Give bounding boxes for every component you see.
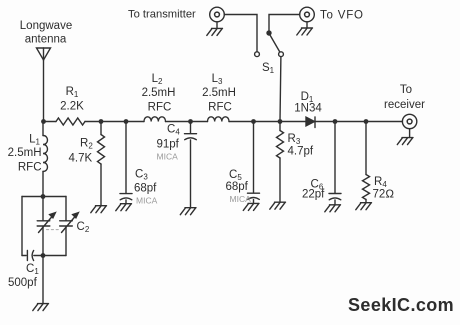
- wire bus segment R1 to L2: [85, 121, 144, 123]
- svg-text:2.2K: 2.2K: [60, 101, 84, 113]
- wire box left edge: [21, 197, 23, 256]
- diode D1: [306, 117, 315, 128]
- inductor L3: [208, 117, 230, 122]
- capacitor C5: [248, 122, 260, 204]
- connector J1 To transmitter label: [128, 9, 196, 21]
- wire bus segment L3 to D1: [229, 121, 306, 123]
- svg-text:68pf: 68pf: [226, 181, 249, 193]
- svg-text:To VFO: To VFO: [320, 10, 364, 22]
- wire box bottom edge left: [22, 255, 26, 257]
- connector J3 To receiver label: [384, 84, 425, 111]
- svg-text:22pf: 22pf: [302, 189, 325, 201]
- switch S1 arm: [270, 35, 279, 51]
- svg-text:MICA: MICA: [136, 196, 158, 206]
- svg-text:Longwave: Longwave: [20, 20, 72, 32]
- resistor R4: [363, 122, 370, 203]
- svg-text:RFC: RFC: [18, 162, 42, 174]
- capacitor C6 labels: [302, 179, 325, 201]
- wire box to ground: [42, 256, 44, 304]
- gang link C2: [47, 229, 61, 231]
- switch S1 label: [262, 62, 275, 75]
- capacitor C4: [185, 122, 197, 208]
- wire antenna to bus: [43, 60, 45, 122]
- svg-text:72Ω: 72Ω: [373, 189, 395, 201]
- svg-text:To: To: [400, 84, 412, 96]
- connector J3: [402, 114, 416, 128]
- junction bus-R4: [364, 119, 369, 124]
- capacitor C6: [329, 122, 341, 205]
- capacitor C3 labels: [134, 169, 158, 206]
- connector J2: [300, 7, 315, 22]
- capacitor C5 labels: [226, 169, 252, 204]
- ground under R3: [270, 202, 286, 209]
- svg-text:4.7K: 4.7K: [69, 153, 93, 165]
- ground under J3: [397, 129, 413, 145]
- junction bus-C6: [333, 119, 338, 124]
- ground under J1: [207, 22, 223, 36]
- junction bus-S1/R3: [278, 119, 283, 124]
- wire switch to bus: [279, 57, 282, 122]
- svg-text:RFC: RFC: [208, 102, 232, 114]
- junction bus-antenna: [41, 119, 46, 124]
- svg-text:4.7pf: 4.7pf: [288, 146, 314, 158]
- resistor R4 labels: [373, 176, 395, 201]
- switch S1 contact b (receiver): [279, 52, 284, 57]
- ground under C3: [116, 204, 132, 211]
- svg-text:MICA: MICA: [230, 194, 252, 204]
- variable capacitor C2 section a: [37, 197, 55, 256]
- svg-text:2.5mH: 2.5mH: [8, 147, 42, 159]
- svg-text:RFC: RFC: [148, 102, 172, 114]
- resistor R1: [56, 118, 85, 125]
- capacitor C3: [120, 122, 132, 204]
- resistor R2 labels: [69, 138, 94, 165]
- ground under R2: [91, 206, 107, 213]
- svg-text:receiver: receiver: [384, 99, 425, 111]
- ground under C1 tank: [33, 304, 49, 311]
- wire box top edge: [22, 196, 66, 198]
- svg-text:91pf: 91pf: [157, 139, 180, 151]
- switch S1 contact a (transmitter): [255, 52, 260, 57]
- junction bus-C5: [251, 119, 256, 124]
- svg-text:MICA: MICA: [157, 152, 179, 162]
- junction bus-C4: [188, 119, 193, 124]
- junction bus-C3: [124, 119, 129, 124]
- junction bus-R2: [99, 119, 104, 124]
- svg-text:antenna: antenna: [25, 34, 67, 46]
- capacitor C1 labels: [8, 263, 39, 289]
- ground under C4: [180, 208, 196, 215]
- switch S1 pivot dot: [266, 30, 271, 35]
- wire bus segment D1 to receiver: [315, 121, 402, 123]
- wire bus segment antenna to R1: [44, 121, 57, 123]
- inductor L2: [144, 117, 166, 122]
- resistor R1 labels: [60, 86, 84, 113]
- svg-text:2.5mH: 2.5mH: [142, 87, 176, 99]
- junction box top: [41, 194, 46, 199]
- inductor L3 labels: [202, 73, 236, 114]
- svg-text:500pf: 500pf: [8, 277, 38, 289]
- inductor L1: [43, 122, 48, 197]
- svg-text:SeekIC.com: SeekIC.com: [348, 295, 454, 315]
- resistor R3: [277, 122, 284, 202]
- connector J1: [210, 7, 225, 22]
- svg-text:To transmitter: To transmitter: [128, 9, 196, 21]
- svg-text:1N34: 1N34: [294, 103, 322, 115]
- antenna ANT label: [20, 20, 72, 46]
- wire bus segment L2 to L3: [166, 121, 208, 123]
- ground under J2: [297, 22, 313, 35]
- capacitor C1: [27, 251, 33, 261]
- inductor L1 labels: [8, 134, 42, 174]
- junction box bottom: [41, 253, 46, 258]
- resistor R2: [98, 122, 105, 206]
- ground under C6: [325, 205, 341, 212]
- connector J2 To VFO label: [320, 10, 364, 22]
- watermark SeekIC.com: [348, 295, 454, 315]
- ground under R4: [356, 203, 372, 210]
- diode D1 labels: [294, 91, 322, 115]
- wire J2 to switch pivot: [269, 15, 300, 31]
- variable capacitor C2 section b: [60, 197, 79, 256]
- ground under C5: [243, 203, 259, 210]
- inductor L2 labels: [142, 73, 176, 114]
- antenna symbol: [37, 48, 51, 60]
- wire box bottom edge right: [34, 255, 66, 257]
- svg-text:68pf: 68pf: [134, 183, 157, 195]
- variable capacitor C2 label: [77, 221, 90, 234]
- svg-text:2.5mH: 2.5mH: [202, 87, 236, 99]
- resistor R3 labels: [288, 133, 314, 158]
- capacitor C4 labels: [157, 124, 181, 162]
- wire J1 to switch contact: [224, 15, 257, 52]
